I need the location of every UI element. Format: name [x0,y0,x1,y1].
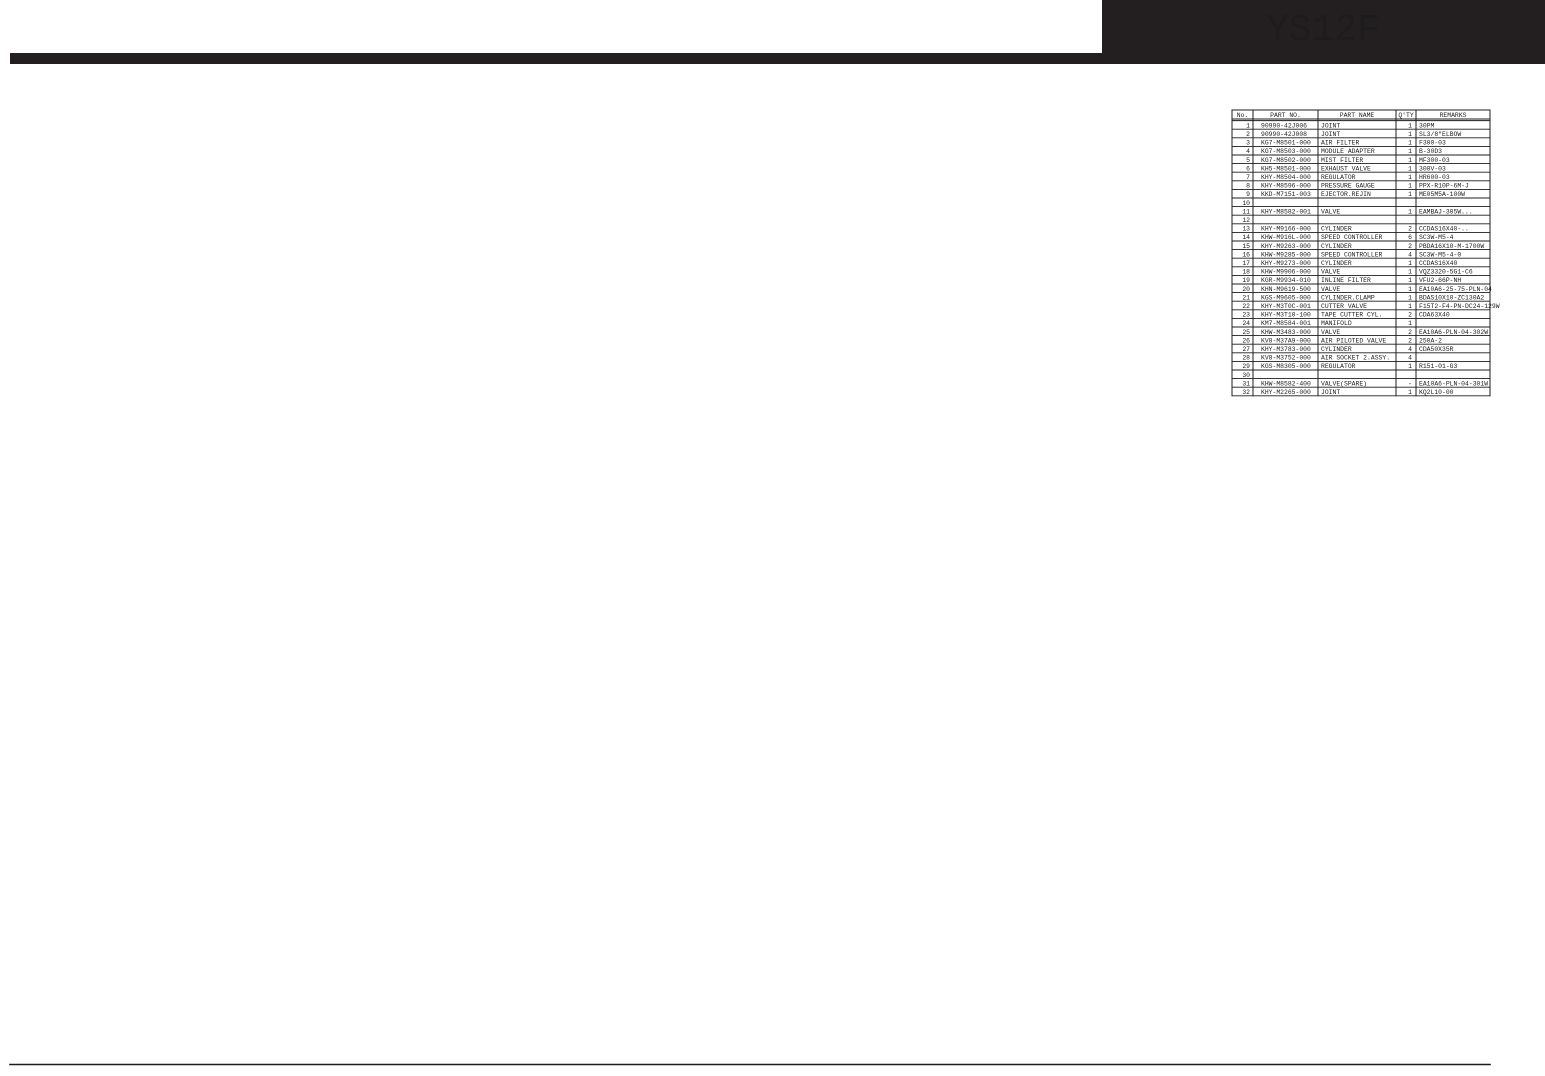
svg-text:KG7-M8503-000: KG7-M8503-000 [1261,148,1311,155]
svg-text:MIST FILTER: MIST FILTER [1321,157,1363,164]
svg-text:6: 6 [1246,165,1250,172]
svg-text:1: 1 [1408,157,1412,164]
svg-text:REGULATOR: REGULATOR [1321,363,1356,370]
svg-text:SC3W-M5-4-0: SC3W-M5-4-0 [1419,251,1461,258]
svg-text:CCDAS16X40-..: CCDAS16X40-.. [1419,226,1469,233]
svg-text:EAMBAJ-305W...: EAMBAJ-305W... [1419,208,1473,215]
svg-text:KG7-M8501-000: KG7-M8501-000 [1261,140,1311,147]
svg-text:PART NAME: PART NAME [1340,112,1375,119]
svg-text:AIR FILTER: AIR FILTER [1321,140,1360,147]
svg-text:CUTTER VALVE: CUTTER VALVE [1321,303,1367,310]
svg-text:JOINT: JOINT [1321,122,1340,129]
svg-text:90990-42J008: 90990-42J008 [1261,131,1307,138]
svg-text:1: 1 [1408,122,1412,129]
svg-text:ME05M5A-100W: ME05M5A-100W [1419,191,1465,198]
svg-text:PART NO.: PART NO. [1270,112,1301,119]
svg-text:21: 21 [1242,294,1250,301]
svg-text:KGS-M8305-000: KGS-M8305-000 [1261,363,1311,370]
svg-text:10: 10 [1242,200,1250,207]
svg-text:20: 20 [1242,286,1250,293]
svg-text:23: 23 [1242,312,1250,319]
svg-text:VALVE: VALVE [1321,208,1340,215]
svg-text:1: 1 [1246,122,1250,129]
svg-text:1: 1 [1408,165,1412,172]
svg-text:1: 1 [1408,363,1412,370]
svg-text:JOINT: JOINT [1321,389,1340,396]
svg-text:KHY-M2265-000: KHY-M2265-000 [1261,389,1311,396]
parts table [1232,110,1500,396]
svg-text:KM7-M8584-001: KM7-M8584-001 [1261,320,1311,327]
svg-text:AIR SOCKET 2.ASSY.: AIR SOCKET 2.ASSY. [1321,355,1390,362]
svg-text:VALVE(SPARE): VALVE(SPARE) [1321,380,1367,387]
svg-text:CDA63X40: CDA63X40 [1419,312,1450,319]
svg-text:B-30D3: B-30D3 [1419,148,1442,155]
svg-text:KHY-M9263-000: KHY-M9263-000 [1261,243,1311,250]
title block YS12F [1102,0,1545,53]
svg-text:PBDA16X10-M-1700W: PBDA16X10-M-1700W [1419,243,1484,250]
svg-text:2: 2 [1408,226,1412,233]
svg-text:22: 22 [1242,303,1250,310]
svg-text:Q'TY: Q'TY [1398,112,1414,119]
svg-text:1: 1 [1408,286,1412,293]
svg-text:1: 1 [1408,294,1412,301]
svg-text:19: 19 [1242,277,1250,284]
svg-text:1: 1 [1408,131,1412,138]
svg-text:CYLINDER.CLAMP: CYLINDER.CLAMP [1321,294,1375,301]
svg-text:KHY-M8596-000: KHY-M8596-000 [1261,183,1311,190]
svg-text:CYLINDER: CYLINDER [1321,226,1352,233]
svg-text:KHW-M3483-000: KHW-M3483-000 [1261,329,1311,336]
svg-text:EJECTOR.REJIN: EJECTOR.REJIN [1321,191,1371,198]
svg-text:32: 32 [1242,389,1250,396]
svg-text:KHY-M3T10-100: KHY-M3T10-100 [1261,312,1311,319]
bottom rule [10,1064,1490,1066]
svg-text:13: 13 [1242,226,1250,233]
svg-text:F15T2-F4-PN-DC24-129W: F15T2-F4-PN-DC24-129W [1419,303,1500,310]
svg-text:1: 1 [1408,208,1412,215]
svg-text:2: 2 [1408,337,1412,344]
svg-text:KHY-M8504-000: KHY-M8504-000 [1261,174,1311,181]
svg-text:12: 12 [1242,217,1250,224]
svg-text:1: 1 [1408,140,1412,147]
svg-text:KH5-M8501-000: KH5-M8501-000 [1261,165,1311,172]
svg-text:CYLINDER: CYLINDER [1321,346,1352,353]
svg-text:REGULATOR: REGULATOR [1321,174,1356,181]
svg-text:2: 2 [1408,243,1412,250]
svg-text:PPX-R10P-6M-J: PPX-R10P-6M-J [1419,183,1469,190]
svg-text:31: 31 [1242,380,1250,387]
svg-text:SC3W-M5-4: SC3W-M5-4 [1419,234,1454,241]
svg-text:27: 27 [1242,346,1250,353]
svg-text:90990-42J006: 90990-42J006 [1261,122,1307,129]
svg-text:KHW-M916L-000: KHW-M916L-000 [1261,234,1311,241]
svg-text:1: 1 [1408,269,1412,276]
svg-text:17: 17 [1242,260,1250,267]
svg-text:KGR-M9934-010: KGR-M9934-010 [1261,277,1311,284]
svg-text:2: 2 [1408,312,1412,319]
svg-text:1: 1 [1408,148,1412,155]
svg-text:KHW-M9906-000: KHW-M9906-000 [1261,269,1311,276]
svg-text:VALVE: VALVE [1321,286,1340,293]
svg-text:14: 14 [1242,234,1250,241]
svg-text:VALVE: VALVE [1321,329,1340,336]
svg-text:REMARKS: REMARKS [1440,112,1467,119]
svg-text:KG7-M8502-000: KG7-M8502-000 [1261,157,1311,164]
svg-text:SPEED CONTROLLER: SPEED CONTROLLER [1321,234,1383,241]
svg-text:EXHAUST VALVE: EXHAUST VALVE [1321,165,1371,172]
svg-text:INLINE FILTER: INLINE FILTER [1321,277,1371,284]
svg-text:KGS-M9605-000: KGS-M9605-000 [1261,294,1311,301]
svg-text:MODULE ADAPTER: MODULE ADAPTER [1321,148,1375,155]
svg-text:KHY-M9273-000: KHY-M9273-000 [1261,260,1311,267]
svg-text:KHW-M8582-400: KHW-M8582-400 [1261,380,1311,387]
svg-text:CCDAS16X40: CCDAS16X40 [1419,260,1458,267]
svg-text:F300-03: F300-03 [1419,140,1446,147]
svg-text:1: 1 [1408,389,1412,396]
svg-text:YS12F: YS12F [1266,9,1380,52]
svg-text:KV8-M3752-000: KV8-M3752-000 [1261,355,1311,362]
svg-text:6: 6 [1408,234,1412,241]
svg-text:MF300-03: MF300-03 [1419,157,1450,164]
svg-text:4: 4 [1408,355,1412,362]
svg-text:EA10A6-25-75-PLN-04: EA10A6-25-75-PLN-04 [1419,286,1492,293]
svg-text:8: 8 [1246,183,1250,190]
svg-text:CDA50X35R: CDA50X35R [1419,346,1454,353]
svg-text:30PM: 30PM [1419,122,1435,129]
svg-text:BDAS10X10-ZC130A2: BDAS10X10-ZC130A2 [1419,294,1484,301]
svg-text:1: 1 [1408,260,1412,267]
svg-text:9: 9 [1246,191,1250,198]
svg-text:2: 2 [1246,131,1250,138]
svg-text:4: 4 [1408,346,1412,353]
svg-text:25: 25 [1242,329,1250,336]
svg-text:KHN-M9619-500: KHN-M9619-500 [1261,286,1311,293]
svg-text:KQ2L10-00: KQ2L10-00 [1419,389,1454,396]
svg-text:TAPE CUTTER CYL.: TAPE CUTTER CYL. [1321,312,1382,319]
top rule bar [10,53,1545,64]
svg-text:4: 4 [1246,148,1250,155]
svg-text:1: 1 [1408,277,1412,284]
svg-text:4: 4 [1408,251,1412,258]
svg-text:CYLINDER: CYLINDER [1321,243,1352,250]
svg-text:300V-03: 300V-03 [1419,165,1446,172]
svg-text:JOINT: JOINT [1321,131,1340,138]
svg-text:15: 15 [1242,243,1250,250]
svg-text:5: 5 [1246,157,1250,164]
svg-text:KHY-M3T0C-001: KHY-M3T0C-001 [1261,303,1311,310]
svg-text:2: 2 [1408,329,1412,336]
svg-text:1: 1 [1408,303,1412,310]
svg-text:KHY-M3783-000: KHY-M3783-000 [1261,346,1311,353]
svg-text:EA10A6-PLN-04-302W: EA10A6-PLN-04-302W [1419,329,1488,336]
svg-text:16: 16 [1242,251,1250,258]
svg-text:VALVE: VALVE [1321,269,1340,276]
svg-text:EA10A6-PLN-04-301W: EA10A6-PLN-04-301W [1419,380,1488,387]
svg-text:30: 30 [1242,372,1250,379]
svg-text:MANIFOLD: MANIFOLD [1321,320,1352,327]
svg-text:VQZ3320-5G1-C6: VQZ3320-5G1-C6 [1419,269,1473,276]
svg-text:VFU2-66P-NH: VFU2-66P-NH [1419,277,1461,284]
svg-text:KKD-M7151-003: KKD-M7151-003 [1261,191,1311,198]
svg-text:250A-2: 250A-2 [1419,337,1442,344]
svg-text:KV8-M37A9-000: KV8-M37A9-000 [1261,337,1311,344]
svg-text:3: 3 [1246,140,1250,147]
svg-text:KHY-M8582-001: KHY-M8582-001 [1261,208,1311,215]
svg-text:18: 18 [1242,269,1250,276]
svg-text:SL3/8"ELBOW: SL3/8"ELBOW [1419,131,1461,138]
svg-text:1: 1 [1408,320,1412,327]
svg-text:HR600-03: HR600-03 [1419,174,1450,181]
svg-text:1: 1 [1408,174,1412,181]
svg-text:No.: No. [1237,112,1249,119]
svg-text:1: 1 [1408,183,1412,190]
svg-text:KHY-M9166-000: KHY-M9166-000 [1261,226,1311,233]
svg-text:SPEED CONTROLLER: SPEED CONTROLLER [1321,251,1383,258]
svg-text:24: 24 [1242,320,1250,327]
svg-text:PRESSURE GAUGE: PRESSURE GAUGE [1321,183,1375,190]
svg-text:CYLINDER: CYLINDER [1321,260,1352,267]
svg-text:-: - [1408,380,1412,387]
svg-text:29: 29 [1242,363,1250,370]
svg-text:26: 26 [1242,337,1250,344]
svg-text:28: 28 [1242,355,1250,362]
svg-text:AIR PILOTED VALVE: AIR PILOTED VALVE [1321,337,1386,344]
svg-text:KHW-M9285-000: KHW-M9285-000 [1261,251,1311,258]
svg-text:7: 7 [1246,174,1250,181]
svg-text:1: 1 [1408,191,1412,198]
svg-text:R151-01-G3: R151-01-G3 [1419,363,1458,370]
svg-text:11: 11 [1242,208,1250,215]
